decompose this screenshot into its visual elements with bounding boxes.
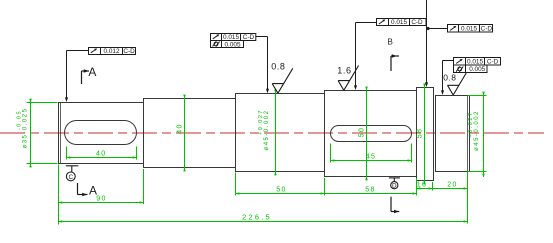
FCF frame A: runout 0.012 C-D (left) xyxy=(67,48,136,101)
roughness symbol 1.6 (on S4) xyxy=(338,66,359,91)
svg-text:0.015: 0.015 xyxy=(461,26,477,33)
dimension ø45 +0.027/+0.002 (S3 vertical) xyxy=(275,90,277,176)
shaft section S2 (ø40) xyxy=(144,99,236,168)
svg-text:90: 90 xyxy=(96,196,107,203)
dimension ø58 (collar vertical) xyxy=(424,84,426,184)
svg-text:A: A xyxy=(89,183,97,197)
dimension ø40 (S2 vertical) xyxy=(184,96,186,171)
dimension 58 (S4 length) xyxy=(325,193,417,195)
svg-text:58: 58 xyxy=(417,128,424,139)
svg-text:20: 20 xyxy=(447,182,458,189)
svg-text:0.015: 0.015 xyxy=(223,34,239,41)
svg-text:C-D: C-D xyxy=(123,48,135,55)
roughness symbol 0.8 (on right end S6) xyxy=(448,73,467,95)
svg-text:D: D xyxy=(392,182,397,189)
svg-text:ø45-0.002: ø45-0.002 xyxy=(264,110,270,151)
svg-text:40: 40 xyxy=(177,123,184,134)
datum D symbol (under S4) xyxy=(389,178,400,189)
keyway slot K1 in S1 xyxy=(65,121,137,145)
shaft section S4 (ø50, keyway seat) xyxy=(325,91,417,177)
svg-text:0.8: 0.8 xyxy=(271,61,285,71)
svg-text:1.6: 1.6 xyxy=(337,66,351,76)
svg-text:0.015: 0.015 xyxy=(391,19,407,26)
svg-text:+0.027: +0.027 xyxy=(258,109,264,135)
FCF frame B: runout 0.015 C-D / cylindricity 0.005 (two rows, middle-left) xyxy=(211,34,268,92)
svg-text:C-D: C-D xyxy=(487,58,499,65)
dimension 50 (S3 length) xyxy=(236,173,325,196)
dimension ø50 (S4 vertical) xyxy=(366,87,368,181)
svg-text:45: 45 xyxy=(366,154,377,161)
svg-text:ø45-0.002: ø45-0.002 xyxy=(474,110,480,151)
shaft collar (ø58) xyxy=(417,88,434,181)
svg-text:50: 50 xyxy=(276,187,287,194)
svg-text:-0.05: -0.05 xyxy=(16,110,22,130)
svg-text:ø35-0.025: ø35-0.025 xyxy=(22,108,28,149)
svg-text:0.005: 0.005 xyxy=(469,66,485,73)
roughness symbol 0.8 (on S3) xyxy=(272,68,293,93)
svg-text:0.015: 0.015 xyxy=(467,58,483,65)
dimension ø45 +0.027/+0.002 (right end, vertical) xyxy=(468,94,487,178)
section mark B (bottom arrow) xyxy=(391,197,399,212)
svg-text:0.012: 0.012 xyxy=(104,48,120,55)
section mark A (top) xyxy=(82,71,90,84)
svg-text:+0.027: +0.027 xyxy=(468,112,474,138)
dimension 226.5 (overall length) xyxy=(59,221,468,223)
dimension 16 (collar width) xyxy=(417,178,439,191)
svg-text:50: 50 xyxy=(359,127,366,138)
keyway slot K2 in S4 xyxy=(331,126,412,142)
leader line (vertical) to collar top xyxy=(426,0,428,86)
svg-text:58: 58 xyxy=(365,187,376,194)
FCF frame E: runout 0.015 C-D / cylindricity 0.005 (two rows, right) xyxy=(443,58,501,94)
shaft section S1 (ø35, left journal) xyxy=(59,103,144,164)
svg-text:0.8: 0.8 xyxy=(443,73,456,83)
svg-text:0.005: 0.005 xyxy=(225,41,241,48)
svg-text:C-D: C-D xyxy=(411,19,423,26)
centerline (red dashed axis) xyxy=(0,132,544,134)
shaft section S3 (ø45) xyxy=(236,94,325,172)
svg-text:226.5: 226.5 xyxy=(242,213,272,222)
svg-text:A: A xyxy=(88,65,96,79)
svg-text:C-D: C-D xyxy=(481,26,493,33)
FCF frame C: runout 0.015 C-D (top middle) xyxy=(356,19,427,89)
svg-text:C-D: C-D xyxy=(243,34,255,41)
svg-text:C: C xyxy=(68,174,73,181)
shaft section S6 (ø45, right end) xyxy=(436,96,470,172)
section mark A (bottom) xyxy=(78,183,88,195)
svg-text:16: 16 xyxy=(417,182,428,189)
dimension 20 (right end width) xyxy=(433,172,468,224)
svg-text:40: 40 xyxy=(96,151,107,158)
dimension 90 (left shoulder length) xyxy=(59,165,144,225)
dimension 45 (keyway K2 length) xyxy=(331,144,412,163)
svg-text:B: B xyxy=(388,38,393,47)
datum C symbol (under S1) xyxy=(66,166,79,181)
dimension ø35 with tolerance (left end, vertical) xyxy=(27,100,58,167)
FCF frame D: runout 0.015 C-D (top right) xyxy=(427,25,493,33)
dimension 40 (keyway K1 length) xyxy=(67,147,137,160)
